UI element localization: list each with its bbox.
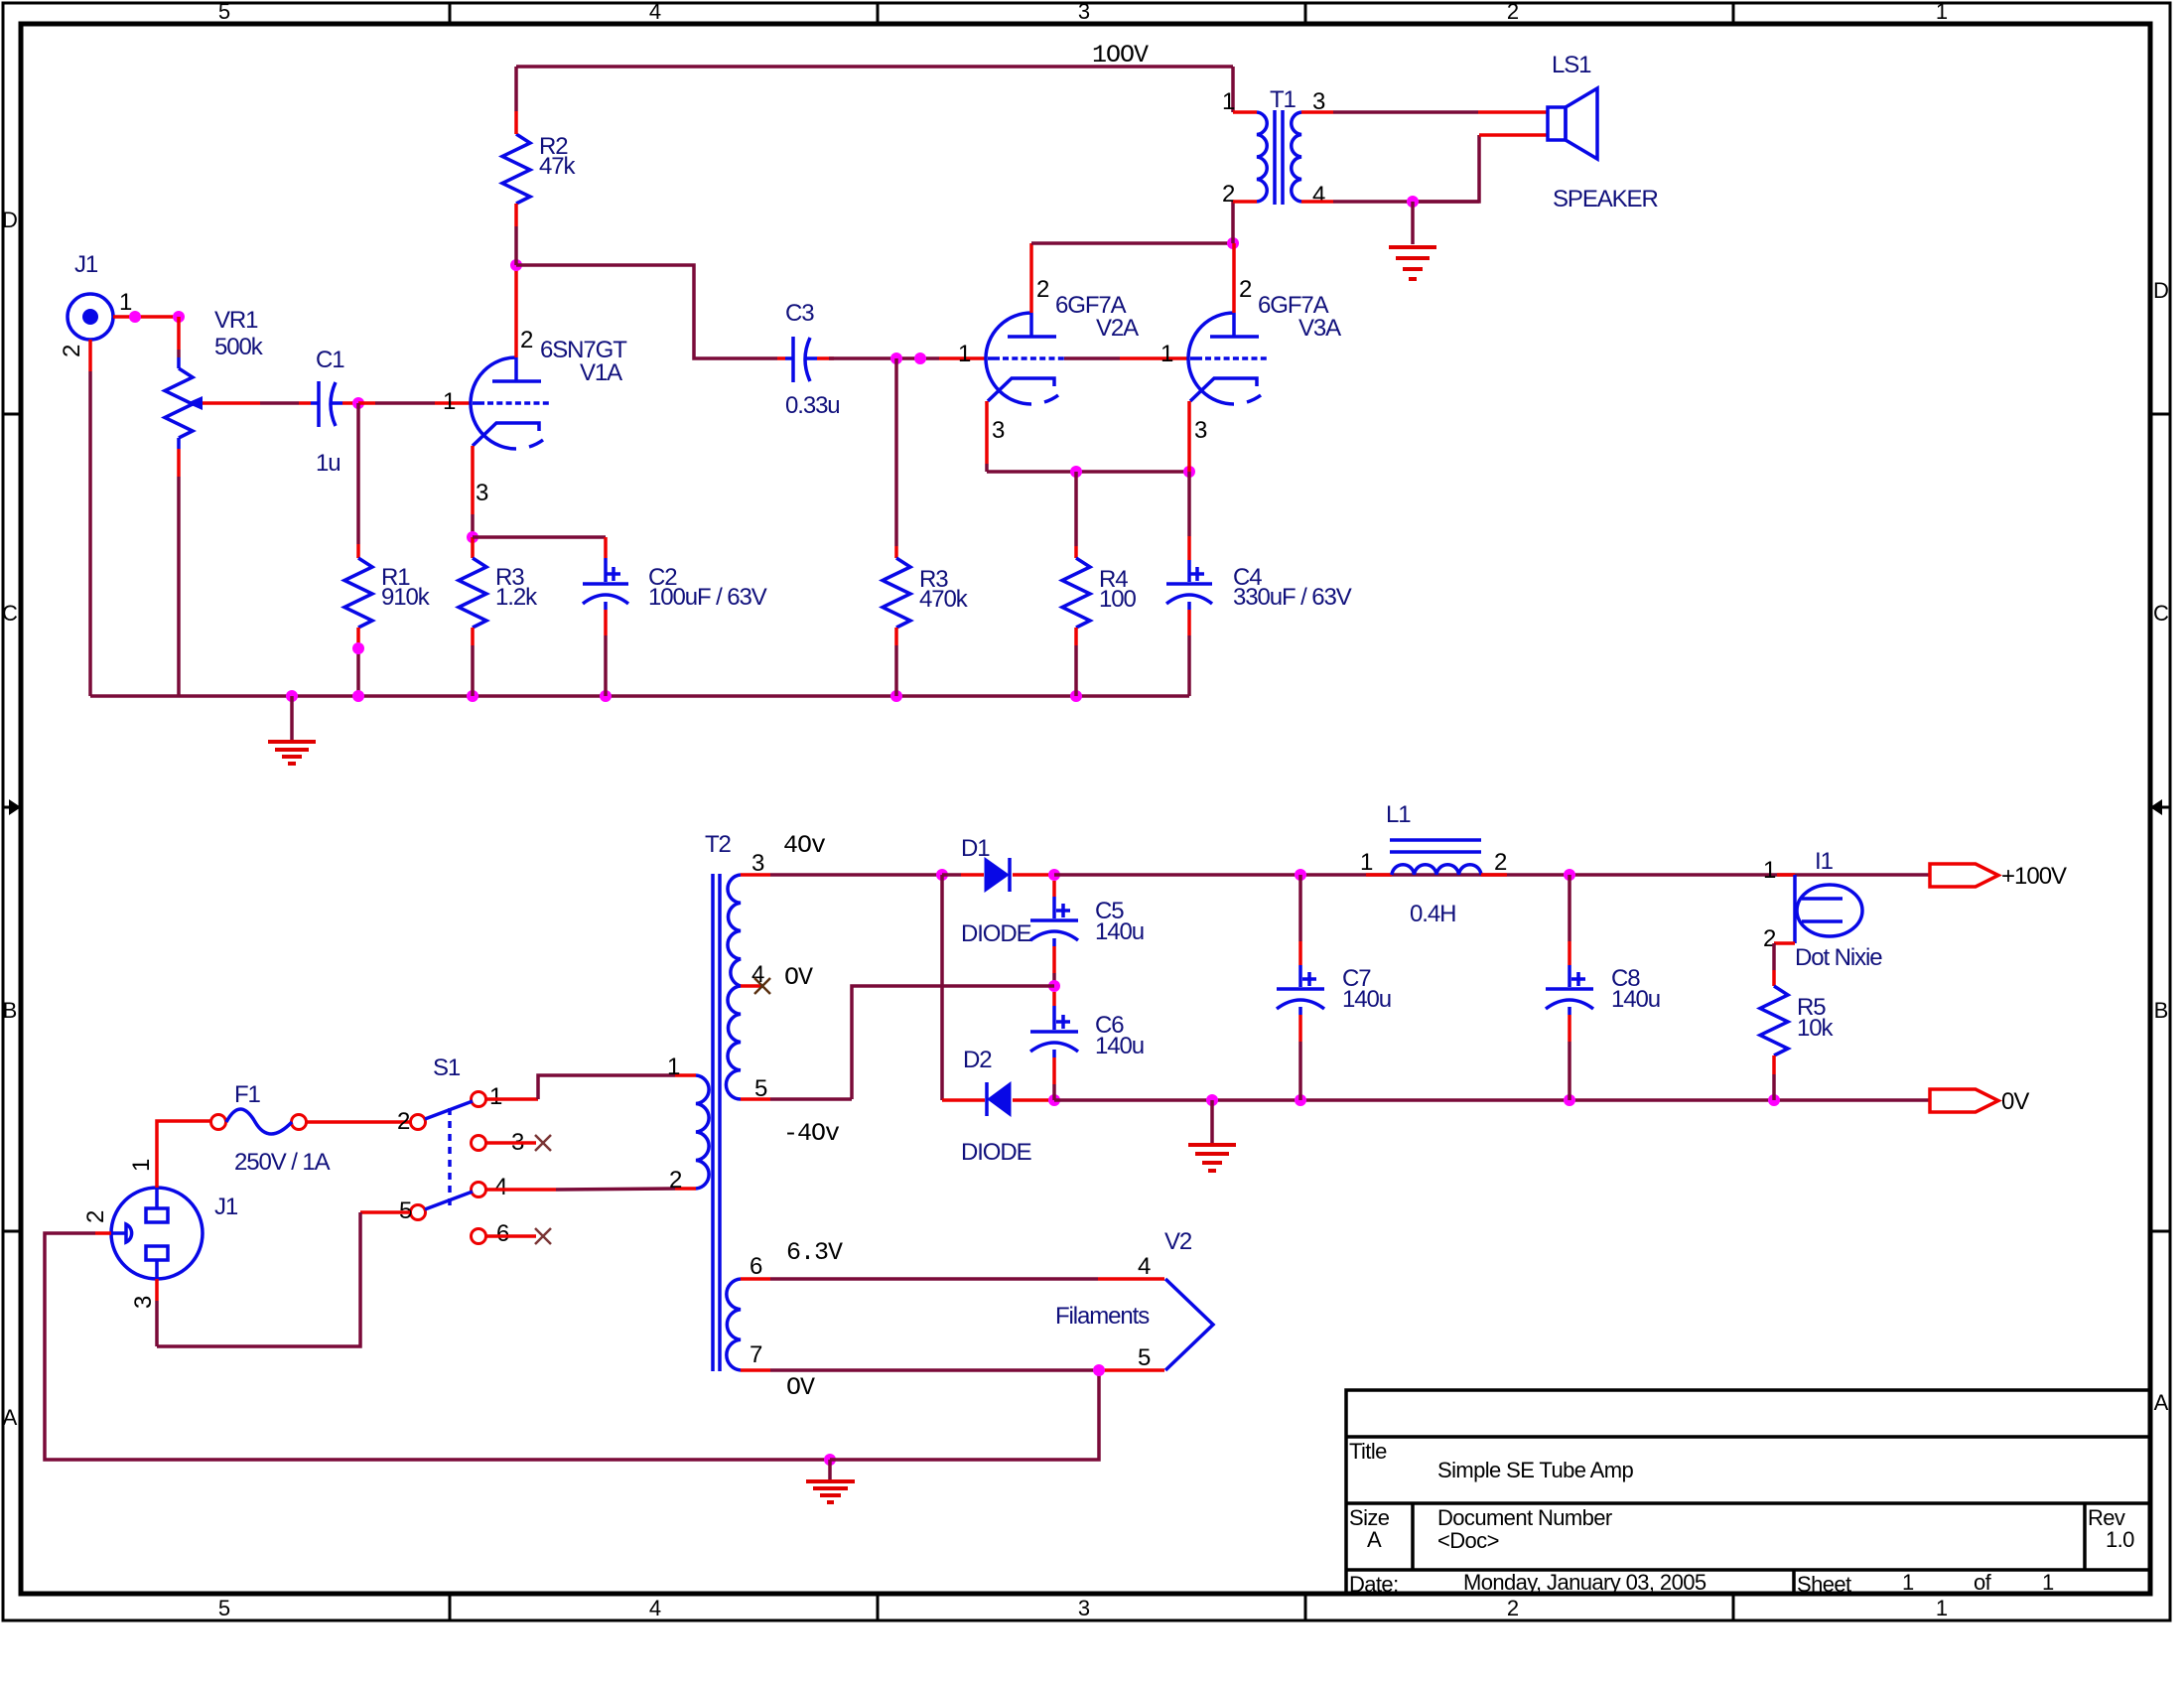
resistor R3 1.2k — [459, 558, 538, 628]
svg-text:Sheet: Sheet — [1797, 1572, 1851, 1597]
svg-text:Document Number: Document Number — [1437, 1505, 1612, 1530]
svg-text:LS1: LS1 — [1552, 52, 1591, 78]
title block — [1346, 1390, 2150, 1597]
transformer T2 — [696, 831, 741, 1371]
junction grid node — [352, 397, 364, 409]
svg-text:A: A — [3, 1405, 18, 1430]
wire C4 bottom to rail end — [1187, 602, 1191, 696]
junction 0V rail at C8 — [1564, 1094, 1575, 1106]
svg-text:D: D — [2, 208, 18, 232]
svg-text:I1: I1 — [1815, 848, 1834, 875]
wire grid node down to R1 — [356, 403, 360, 558]
junction 0V rail at C7 — [1295, 1094, 1306, 1106]
svg-text:500k: 500k — [214, 334, 264, 360]
wire R2 top lead — [514, 67, 518, 134]
junction C5 top node — [1048, 869, 1060, 881]
svg-text:3: 3 — [992, 417, 1005, 444]
svg-text:L1: L1 — [1386, 801, 1411, 828]
svg-text:3: 3 — [751, 850, 764, 877]
resistor R3 470k — [883, 558, 969, 628]
diode D2 — [961, 1047, 1031, 1166]
svg-text:1: 1 — [2042, 1570, 2054, 1595]
svg-text:910k: 910k — [381, 584, 431, 611]
wire T2 pin6 to filament connector — [741, 1277, 1164, 1281]
loudspeaker LS1 — [1548, 52, 1658, 212]
wire 0V rail bottom — [1054, 1098, 1930, 1102]
junction rail at R3 470k — [890, 690, 902, 702]
wire J1 pin2 to bottom rail — [45, 1233, 830, 1460]
svg-text:D: D — [2153, 278, 2169, 303]
capacitor C3 0.33u — [785, 300, 840, 419]
wire T1 pin3 to speaker — [1301, 110, 1547, 114]
inductor L1 0.4H — [1366, 801, 1507, 927]
svg-text:2: 2 — [397, 1108, 410, 1135]
connector V2 Filaments — [1055, 1228, 1213, 1370]
junction — [173, 311, 185, 323]
svg-text:4: 4 — [649, 1596, 661, 1620]
svg-text:4: 4 — [649, 0, 661, 24]
svg-text:B: B — [3, 998, 18, 1023]
svg-text:7: 7 — [750, 1341, 762, 1368]
svg-text:1: 1 — [1763, 857, 1776, 884]
wire 100V rail top — [1054, 873, 1930, 877]
wire D1 cathode to C5 node — [1013, 873, 1054, 877]
no-connect X pin4 T2 — [754, 978, 770, 994]
transformer T1 — [1257, 86, 1301, 205]
capacitor C4 330uF/63V polarized — [1166, 564, 1352, 611]
wire V1A cathode pin 3 down — [471, 446, 475, 537]
svg-text:470k: 470k — [919, 586, 969, 613]
junction rail at R1 — [352, 690, 364, 702]
junction chassis ground — [824, 1454, 836, 1466]
svg-text:1: 1 — [1936, 0, 1948, 24]
ground symbol on rail — [268, 696, 316, 764]
svg-text:2: 2 — [1507, 1596, 1519, 1620]
svg-text:DIODE: DIODE — [961, 920, 1031, 947]
junction C3 node b — [914, 352, 926, 364]
junction plate link node — [1227, 237, 1239, 249]
wire net 100V from R2 to T1 pin1 — [516, 65, 1233, 69]
wire link to D2 — [942, 1098, 985, 1102]
svg-text:2: 2 — [1036, 276, 1049, 303]
junction speaker ground node — [1407, 196, 1419, 208]
wire T2 pin7 to filament connector — [741, 1368, 1164, 1372]
wire S1 pin4 to T2 pin2 — [486, 1189, 696, 1190]
svg-text:1u: 1u — [316, 450, 341, 477]
wire S1 pin3 stub no-connect — [486, 1141, 536, 1145]
svg-text:C3: C3 — [785, 300, 814, 327]
wire J1 pin2 down to ground rail — [88, 340, 92, 696]
svg-text:4: 4 — [1138, 1253, 1151, 1280]
wire down to T1 pin 1 — [1231, 67, 1235, 112]
svg-text:VR1: VR1 — [214, 307, 258, 334]
ground symbol speaker — [1389, 202, 1436, 279]
svg-text:4: 4 — [494, 1174, 507, 1200]
svg-text:C: C — [2, 601, 18, 626]
svg-text:250V / 1A: 250V / 1A — [234, 1149, 331, 1176]
wire C1 to grid node — [342, 401, 358, 405]
wire V3A cathode down — [1187, 401, 1191, 472]
wire T1 pin1 stub — [1233, 110, 1257, 114]
svg-text:T1: T1 — [1270, 86, 1297, 113]
svg-text:0.4H: 0.4H — [1410, 901, 1455, 927]
svg-text:2: 2 — [82, 1210, 109, 1223]
svg-text:1: 1 — [958, 341, 971, 367]
svg-text:0V: 0V — [2001, 1088, 2029, 1115]
ground symbol chassis — [806, 1460, 855, 1502]
resistor R1 910k — [344, 558, 431, 628]
junction cathode node — [467, 531, 478, 543]
wire R2 bottom lead — [514, 204, 518, 265]
svg-text:J1: J1 — [214, 1194, 238, 1220]
svg-text:3: 3 — [1194, 417, 1207, 444]
svg-text:of: of — [1974, 1570, 1992, 1595]
connector J1 AC power inlet — [111, 1188, 238, 1279]
junction 0V rail at R5 — [1768, 1094, 1780, 1106]
wire VR1 top lead — [177, 317, 181, 357]
wire V2A plate up and to T1 pin2 column — [1031, 243, 1233, 313]
svg-text:OV: OV — [784, 963, 813, 992]
svg-text:SPEAKER: SPEAKER — [1553, 186, 1658, 212]
wire R4 bottom to rail — [1074, 628, 1078, 696]
wire S1 pin5 to J1 pin3 — [157, 1212, 410, 1346]
junction rail at C8 — [1564, 869, 1575, 881]
wire T2 pin4 stub no-connect — [741, 984, 762, 988]
diode D1 — [961, 835, 1031, 947]
wire J1 pin1 up to fuse — [157, 1121, 210, 1188]
svg-text:1: 1 — [1360, 849, 1373, 876]
svg-text:F1: F1 — [234, 1081, 261, 1108]
junction cathode row at R4 — [1070, 466, 1082, 478]
svg-text:4Ov: 4Ov — [783, 831, 826, 860]
svg-text:2: 2 — [1494, 849, 1507, 876]
junction C6 bottom node — [1048, 1094, 1060, 1106]
svg-text:Title: Title — [1349, 1439, 1387, 1464]
svg-text:2: 2 — [520, 327, 533, 353]
ground rail wire — [90, 694, 1189, 698]
svg-text:100: 100 — [1099, 586, 1136, 613]
svg-text:3: 3 — [476, 480, 488, 506]
wire T2 pin3 to D1 — [741, 873, 942, 877]
wire D2 to C6 bottom node — [1013, 1098, 1054, 1102]
svg-text:2: 2 — [59, 345, 85, 357]
svg-text:47k: 47k — [539, 153, 576, 180]
svg-text:D1: D1 — [961, 835, 990, 862]
wire R4 top lead — [1074, 472, 1078, 558]
svg-text:1: 1 — [1902, 1570, 1914, 1595]
wire plate node to C3 — [516, 265, 785, 358]
svg-text:2: 2 — [1507, 0, 1519, 24]
svg-text:3: 3 — [130, 1296, 157, 1309]
wire C3 to V2A grid — [817, 356, 986, 360]
svg-text:140u: 140u — [1611, 986, 1660, 1013]
junction C5 C6 midpoint — [1048, 980, 1060, 992]
svg-text:D2: D2 — [963, 1047, 992, 1073]
svg-text:3: 3 — [1078, 0, 1090, 24]
fuse F1 250V/1A — [211, 1081, 331, 1176]
capacitor C8 140u — [1546, 875, 1660, 1100]
no-connect X pin6 — [535, 1228, 551, 1244]
svg-text:1: 1 — [1160, 341, 1173, 367]
junction plate node — [510, 259, 522, 271]
junction — [129, 311, 141, 323]
svg-text:<Doc>: <Doc> — [1437, 1528, 1499, 1553]
svg-text:-4Ov: -4Ov — [783, 1119, 840, 1148]
wire V2A grid to V3A grid — [1064, 356, 1187, 360]
svg-text:1.2k: 1.2k — [495, 584, 538, 611]
svg-text:2: 2 — [1239, 276, 1252, 303]
svg-text:4: 4 — [1312, 182, 1325, 209]
wire cathode node to R3 — [471, 537, 475, 558]
junction D1 anode node — [936, 869, 948, 881]
triode V3A 6GF7A — [1188, 292, 1341, 404]
svg-text:2: 2 — [669, 1167, 682, 1194]
svg-text:1.0: 1.0 — [2106, 1527, 2134, 1552]
wire cathode row V2A to V3A — [987, 470, 1189, 474]
wire I1 pin2 down to R5 — [1772, 943, 1776, 986]
capacitor C7 140u — [1277, 875, 1391, 1100]
svg-text:3: 3 — [1078, 1596, 1090, 1620]
wire F1 to S1 pin2 — [307, 1120, 410, 1124]
wire C4 top lead — [1187, 472, 1191, 582]
svg-text:1: 1 — [443, 388, 456, 415]
svg-text:5: 5 — [218, 0, 230, 24]
svg-text:Simple SE Tube Amp: Simple SE Tube Amp — [1437, 1458, 1633, 1482]
junction rail at C7 — [1295, 869, 1306, 881]
svg-text:6: 6 — [750, 1253, 762, 1280]
svg-text:6.3V: 6.3V — [786, 1238, 843, 1267]
port +100V — [1930, 863, 2067, 890]
svg-text:330uF / 63V: 330uF / 63V — [1233, 584, 1352, 611]
wire R3 470k top lead — [894, 358, 898, 558]
wire R3 bottom to rail — [471, 628, 475, 696]
potentiometer VR1 500k — [165, 307, 264, 449]
svg-text:1: 1 — [667, 1054, 680, 1080]
wire VR1 wiper to C1 — [203, 401, 311, 405]
svg-text:1: 1 — [119, 289, 132, 316]
wire S1 pin6 stub no-connect — [486, 1234, 536, 1238]
svg-text:J1: J1 — [74, 251, 98, 278]
wire J1 pin1 to VR1 top — [113, 315, 179, 319]
connector J1 RCA input jack — [68, 251, 113, 340]
svg-text:10k: 10k — [1797, 1015, 1834, 1042]
junction C3 node — [890, 352, 902, 364]
switch S1 — [411, 1054, 486, 1244]
svg-text:V1A: V1A — [580, 359, 622, 386]
svg-text:DIODE: DIODE — [961, 1139, 1031, 1166]
svg-text:V2: V2 — [1164, 1228, 1192, 1255]
svg-text:B: B — [2154, 998, 2169, 1023]
svg-text:C: C — [2153, 601, 2169, 626]
junction 0V rail ground — [1206, 1094, 1218, 1106]
capacitor C1 1u — [311, 347, 344, 477]
junction below R1 — [352, 642, 364, 654]
svg-text:Monday, January 03, 2005: Monday, January 03, 2005 — [1463, 1570, 1706, 1595]
wire C2 bottom to rail — [604, 602, 608, 696]
svg-text:1OOV: 1OOV — [1092, 41, 1149, 70]
junction cathode row at C4 — [1183, 466, 1195, 478]
wire 0V mid from T2 pin5 — [741, 986, 1054, 1099]
svg-text:A: A — [1367, 1527, 1382, 1552]
port 0V — [1930, 1088, 2029, 1115]
svg-text:5: 5 — [1138, 1344, 1151, 1371]
wire T1 pin2 stub — [1233, 200, 1257, 204]
resistor R4 100 — [1062, 558, 1136, 628]
wire VR1 bottom lead to rail — [177, 449, 181, 696]
wire S1 pin1 to T2 pin1 — [486, 1075, 696, 1099]
svg-text:2: 2 — [1222, 181, 1235, 208]
svg-text:140u: 140u — [1342, 986, 1391, 1013]
svg-text:6: 6 — [496, 1220, 509, 1247]
junction rail at ground — [286, 690, 298, 702]
svg-text:Date:: Date: — [1349, 1572, 1399, 1597]
wire V3A plate to junction — [1232, 243, 1236, 313]
triode V2A 6GF7A — [986, 292, 1139, 404]
wire junction up to T1 pin 2 — [1231, 202, 1235, 243]
svg-text:S1: S1 — [433, 1054, 461, 1081]
wire grid node to V1A pin 1 — [358, 401, 471, 405]
wire cathode node to C2 top — [473, 537, 606, 582]
no-connect X pin3 — [535, 1135, 551, 1151]
wire R3 470k bottom to rail — [894, 628, 898, 696]
triode V1A 6SN7GT — [471, 337, 627, 449]
svg-text:A: A — [2154, 1390, 2169, 1415]
svg-text:Dot Nixie: Dot Nixie — [1795, 944, 1882, 971]
svg-text:5: 5 — [218, 1596, 230, 1620]
svg-text:Filaments: Filaments — [1055, 1303, 1150, 1330]
junction rail at R4 — [1070, 690, 1082, 702]
svg-text:1: 1 — [1936, 1596, 1948, 1620]
svg-text:V3A: V3A — [1298, 315, 1341, 342]
svg-text:140u: 140u — [1095, 918, 1144, 945]
svg-text:0.33u: 0.33u — [785, 392, 840, 419]
svg-text:1: 1 — [128, 1159, 155, 1172]
junction rail at C2 — [600, 690, 612, 702]
resistor R2 47k — [502, 133, 576, 204]
resistor R5 10k — [1760, 986, 1834, 1055]
svg-text:1: 1 — [489, 1083, 502, 1110]
capacitor C2 100uF/63V polarized — [583, 564, 767, 611]
wire D1-D2 link vertical — [940, 875, 944, 1100]
wire V1A plate to R2 junction — [514, 269, 518, 357]
svg-text:100uF / 63V: 100uF / 63V — [648, 584, 767, 611]
svg-text:C1: C1 — [316, 347, 344, 373]
svg-text:140u: 140u — [1095, 1033, 1144, 1059]
wire R5 bottom to 0V rail — [1772, 1055, 1776, 1100]
junction filament return — [1093, 1364, 1105, 1376]
ground symbol 0V rail — [1188, 1100, 1236, 1171]
wire R1 bottom to rail — [356, 628, 360, 696]
svg-text:+100V: +100V — [2001, 863, 2067, 890]
junction rail at R3 — [467, 690, 478, 702]
svg-text:OV: OV — [786, 1373, 815, 1402]
svg-text:V2A: V2A — [1096, 315, 1139, 342]
capacitor C6 140u — [1030, 992, 1144, 1100]
wire T1 pin4 to speaker return — [1301, 135, 1547, 202]
svg-text:T2: T2 — [705, 831, 732, 858]
wire V2A cathode down — [985, 401, 989, 472]
wire bottom rail to filament return — [830, 1370, 1099, 1460]
wire junction to D1 — [942, 873, 984, 877]
lamp I1 Dot Nixie — [1774, 848, 1882, 971]
capacitor C5 140u — [1030, 881, 1144, 986]
